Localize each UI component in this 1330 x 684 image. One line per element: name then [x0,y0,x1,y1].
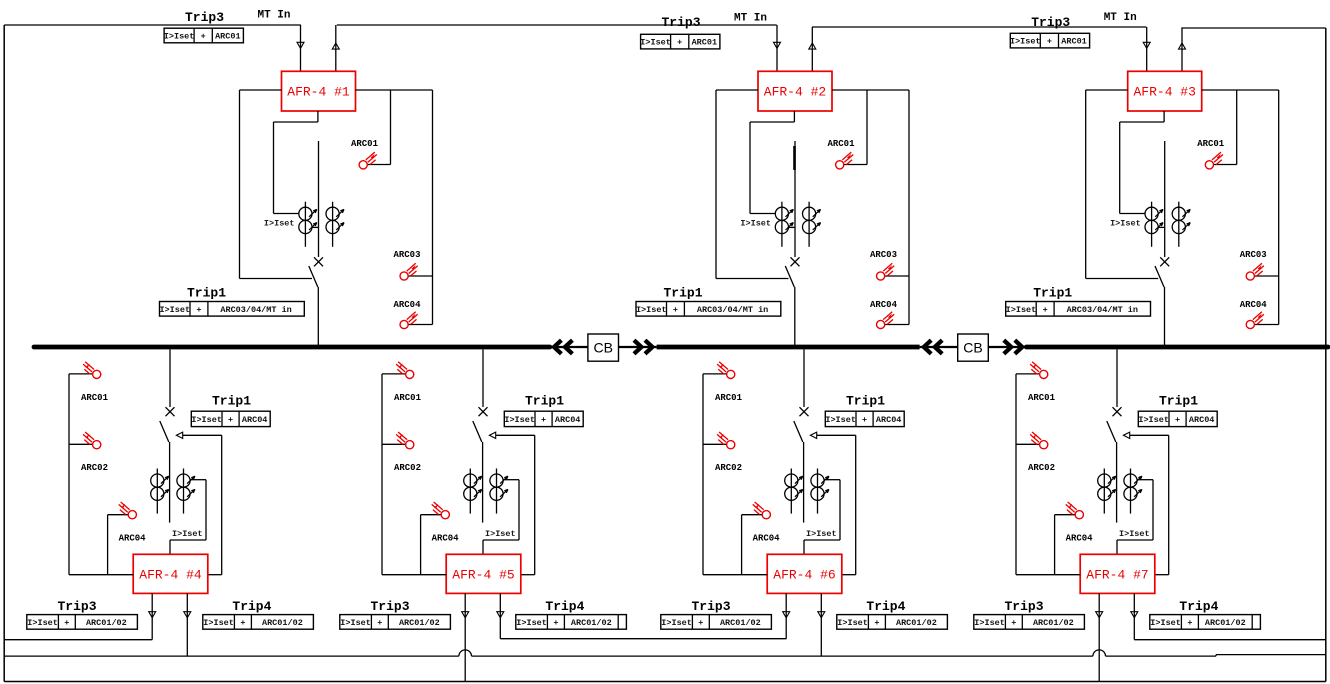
svg-text:ARC01: ARC01 [1028,393,1056,403]
label box Trip3 block 5 [340,615,451,630]
sensor ARC02 block 6 [717,432,735,449]
svg-text:ARC04: ARC04 [1066,534,1094,544]
sensor ARC01 block 1 [359,152,377,169]
label Trip3 block 7 [1004,599,1043,614]
switch cross block 7 [1113,407,1122,416]
svg-text:ARC04: ARC04 [1240,300,1268,310]
label box Trip1 block 6 [825,411,904,426]
CT pair right block 6 [811,469,829,514]
wire left loop block 3 [1086,90,1159,279]
svg-text:+: + [541,415,546,425]
label box Trip3 block 6 [661,615,772,630]
svg-text:ARC03/04/MT in: ARC03/04/MT in [220,305,291,315]
wire ARC01 stub block 4 [69,373,93,375]
switch cross block 2 [791,257,800,266]
wire ARC04 stub block 4 [108,515,129,575]
arrow up from AFR-4 #3 [1179,43,1186,49]
label ARC04 block 4 [119,534,147,544]
wire left loop block 2 [716,90,789,279]
relay AFR-4 #5 [446,554,521,593]
sensor ARC02 block 4 [83,432,101,449]
label ARC04 block 3 [1240,300,1268,310]
svg-text:+: + [196,305,201,315]
wire net B (trip4 outputs bus) [4,650,1326,656]
svg-text:I>Iset: I>Iset [504,415,535,425]
wire CT loop block 4 [170,480,206,555]
wire trip output left block 4 [151,593,153,639]
wire CT to feeder tick block 2 [788,226,795,228]
wire feeder to busbar block 3 [1164,287,1166,345]
label ARC01 block 6 [715,393,743,403]
CT pair right block 1 [326,202,344,247]
switch blade block 5 [473,421,482,442]
svg-text:ARC01/02: ARC01/02 [1033,618,1074,628]
arrow output left block 7 [1096,612,1103,618]
label Trip3 block 6 [691,599,730,614]
label Trip4 block 5 [545,599,584,614]
wire ARC03 stub block 3 [1254,275,1279,277]
wire left sensor loop block 5 [382,374,446,575]
label Trip1 block 7 [1159,393,1198,408]
switch blade block 3 [1155,266,1164,287]
label box Trip3 block 1 [164,28,244,43]
svg-text:I>Iset: I>Iset [164,32,195,42]
wire trip output right block 7 [1133,593,1135,639]
wire trip return block 6 [817,435,856,574]
svg-text:ARC03/04/MT in: ARC03/04/MT in [1067,305,1138,315]
svg-text:Trip3: Trip3 [185,10,224,25]
svg-text:ARC03/04/MT in: ARC03/04/MT in [697,305,768,315]
svg-text:Trip4: Trip4 [1179,599,1218,614]
wire left sensor loop block 4 [69,374,133,575]
label ARC01 block 2 [827,139,855,149]
switch cross block 6 [800,407,809,416]
wire net D (trip4 #7 to right frame) [1134,639,1326,641]
arrow output left block 6 [783,612,790,618]
sensor ARC04 block 2 [877,312,895,329]
sensor ARC01 block 5 [396,362,414,379]
label I>Iset block 5 [485,529,516,539]
svg-text:MT In: MT In [1104,12,1137,24]
wire feeder mid block 4 [169,442,171,523]
wire left sensor loop block 7 [1016,374,1080,575]
wire trip output left block 5 [464,593,466,681]
arrow trip at switch block 5 [489,432,495,438]
sensor ARC03 block 1 [400,263,418,280]
busbar section C [1026,345,1328,350]
svg-text:ARC02: ARC02 [1028,463,1055,473]
CT pair left block 3 [1145,202,1163,247]
wire net C (trip4 #5 to trip3 #6) [500,638,786,640]
wire feeder from busbar block 6 [803,350,805,408]
switch cross block 5 [479,407,488,416]
svg-text:ARC01: ARC01 [81,393,109,403]
svg-text:Trip3: Trip3 [370,599,409,614]
wire right loop block 1 [356,90,433,325]
wire ARC04 stub block 3 [1254,324,1279,326]
svg-text:ARC01: ARC01 [692,38,718,48]
sensor ARC04 block 3 [1246,312,1264,329]
svg-text:AFR-4 #4: AFR-4 #4 [139,568,202,583]
wire feeder upper block 1 [318,141,320,257]
wire CT loop block 5 [483,480,519,555]
relay AFR-4 #2 [758,71,832,111]
svg-text:+: + [201,32,206,42]
sensor ARC03 block 2 [877,263,895,280]
svg-text:+: + [1047,37,1052,47]
svg-text:+: + [228,415,233,425]
arrow output left block 4 [149,612,156,618]
drawing frame bottom border [4,681,1326,683]
switch blade block 6 [794,421,803,442]
svg-text:ARC02: ARC02 [715,463,742,473]
svg-text:AFR-4 #6: AFR-4 #6 [773,568,835,583]
CT pair left block 7 [1098,469,1116,514]
svg-text:I>Iset: I>Iset [1110,219,1141,229]
wire CT to feeder tick block 1 [312,226,319,228]
arrow output right block 7 [1131,612,1138,618]
svg-text:ARC03: ARC03 [1240,250,1267,260]
svg-text:Trip4: Trip4 [545,599,584,614]
label I>Iset block 4 [172,529,203,539]
wire ARC01 stub block 3 [1213,90,1236,165]
label ARC01 block 4 [81,393,109,403]
svg-text:ARC04: ARC04 [876,415,902,425]
arrow up from AFR-4 #2 [809,43,816,49]
svg-text:I>Iset: I>Iset [172,529,203,539]
svg-text:Trip1: Trip1 [525,393,564,408]
label Trip4 block 4 [232,599,271,614]
svg-text:Trip3: Trip3 [1004,599,1043,614]
svg-text:+: + [1187,618,1192,628]
wire trip output right block 6 [820,593,822,656]
svg-text:I>Iset: I>Iset [191,415,222,425]
sensor ARC04 block 5 [432,502,450,519]
label box Trip4 block 5 [516,615,627,630]
svg-text:ARC01/02: ARC01/02 [571,618,612,628]
label box Trip1 block 2 [636,302,781,317]
svg-text:CB: CB [963,339,982,355]
svg-text:I>Iset: I>Iset [636,305,667,315]
wire trip return block 7 [1130,435,1169,574]
relay AFR-4 #4 [133,554,208,593]
wire feeder from busbar block 5 [482,350,484,408]
CT pair right block 4 [177,469,195,514]
label box Trip1 block 4 [191,411,270,426]
sensor ARC02 block 5 [396,432,414,449]
wire MT-in down-feed block 3 [1146,27,1148,71]
arrow trip at switch block 7 [1123,432,1129,438]
sensor ARC01 block 6 [717,362,735,379]
label Trip1 block 3 [1033,286,1072,301]
wire ARC04 stub block 2 [884,324,909,326]
arrow down into AFR-4 #3 [1143,42,1150,48]
wire left loop block 1 [240,90,313,279]
wire trip return block 5 [496,435,535,574]
svg-text:ARC01/02: ARC01/02 [720,618,761,628]
drawing frame left border [3,25,5,682]
wire feeder from busbar block 4 [169,350,171,408]
svg-text:I>Iset: I>Iset [159,305,190,315]
wire ARC03 stub block 1 [408,275,433,277]
arrow up from AFR-4 #1 [332,43,339,49]
label Trip3 block 3 [1031,15,1070,30]
svg-text:ARC01/02: ARC01/02 [1205,618,1246,628]
label box Trip4 block 7 [1150,615,1261,630]
sensor ARC01 block 7 [1030,362,1048,379]
label Trip4 block 7 [1179,599,1218,614]
svg-text:MT In: MT In [257,10,290,22]
sensor ARC04 block 7 [1066,502,1084,519]
wire MT-in down-feed block 2 [776,25,778,71]
svg-text:+: + [240,618,245,628]
svg-text:ARC01: ARC01 [1061,37,1087,47]
wire feeder overlap block 2 [793,146,796,170]
wire ARC01 stub block 1 [367,90,390,165]
svg-text:+: + [1011,618,1016,628]
svg-text:ARC01: ARC01 [394,393,422,403]
switch blade block 1 [309,266,318,287]
wire feeder mid block 6 [803,442,805,523]
wire right loop block 2 [832,90,909,325]
label I>Iset block 6 [806,529,837,539]
relay AFR-4 #1 [282,71,356,111]
svg-text:I>Iset: I>Iset [1010,37,1041,47]
wire ARC02 stub block 4 [69,443,93,445]
svg-text:ARC01/02: ARC01/02 [262,618,303,628]
CT pair right block 7 [1124,469,1142,514]
switch blade block 4 [160,421,169,442]
drawing frame right border [1325,28,1327,682]
label Trip3 block 5 [370,599,409,614]
wire ARC04 stub block 1 [408,324,433,326]
svg-text:ARC01/02: ARC01/02 [896,618,937,628]
label box Trip1 block 1 [159,302,304,317]
wire trip output left block 6 [785,593,787,638]
svg-text:AFR-4 #1: AFR-4 #1 [287,85,350,100]
label MT In block 1 [257,10,290,22]
sensor ARC04 block 6 [753,502,771,519]
label Trip3 block 4 [57,599,96,614]
wire ARC04 stub block 5 [421,515,442,575]
svg-text:AFR-4 #3: AFR-4 #3 [1133,85,1195,100]
svg-text:I>Iset: I>Iset [516,618,547,628]
label box Trip1 block 7 [1138,411,1217,426]
label ARC04 block 6 [753,534,781,544]
wire top bus segment 3 [812,26,1146,28]
label ARC03 block 3 [1240,250,1267,260]
label Trip3 block 1 [185,10,224,25]
svg-text:I>Iset: I>Iset [661,618,692,628]
wire CT loop block 3 [1120,111,1164,214]
label ARC04 block 5 [432,534,460,544]
svg-text:Trip3: Trip3 [691,599,730,614]
wire MT-in down-feed block 1 [300,25,302,71]
svg-text:I>Iset: I>Iset [825,415,856,425]
arrow down into AFR-4 #1 [297,42,304,48]
wire feeder upper block 2 [794,141,796,257]
svg-text:I>Iset: I>Iset [974,618,1005,628]
wire feeder from busbar block 7 [1116,350,1118,408]
label ARC03 block 1 [393,250,420,260]
switch cross block 3 [1160,257,1169,266]
wire trip output right block 5 [499,593,501,638]
svg-text:Trip1: Trip1 [187,286,226,301]
label box Trip3 block 7 [974,615,1085,630]
label box Trip4 block 6 [837,615,948,630]
wire CT loop block 7 [1117,480,1153,555]
label ARC03 block 2 [870,250,897,260]
wire ARC04 stub block 6 [742,515,763,575]
label ARC02 block 6 [715,463,742,473]
wire CT loop block 1 [274,111,318,214]
sensor ARC04 block 1 [400,312,418,329]
label MT In block 2 [734,13,767,25]
svg-text:I>Iset: I>Iset [340,618,371,628]
wire ARC01 stub block 7 [1016,373,1040,375]
svg-text:+: + [698,618,703,628]
label Trip1 block 6 [846,393,885,408]
label box Trip3 block 4 [27,615,138,630]
svg-text:Trip3: Trip3 [57,599,96,614]
svg-text:ARC04: ARC04 [119,534,147,544]
svg-text:ARC01: ARC01 [827,139,855,149]
sensor ARC01 block 4 [83,362,101,379]
CT pair left block 4 [151,469,169,514]
label Trip4 block 6 [866,599,905,614]
svg-text:ARC01: ARC01 [1197,139,1225,149]
label ARC04 block 7 [1066,534,1094,544]
wire trip return block 4 [183,435,222,574]
svg-text:Trip3: Trip3 [1031,15,1070,30]
arrow output right block 4 [184,612,191,618]
svg-text:ARC01/02: ARC01/02 [399,618,440,628]
svg-text:MT In: MT In [734,13,767,25]
sensor ARC01 block 2 [836,152,854,169]
label box Trip1 block 3 [1006,302,1151,317]
label Trip3 block 2 [661,15,700,30]
label box Trip1 block 5 [504,411,583,426]
svg-text:+: + [1175,415,1180,425]
busbar section B [657,345,920,350]
wire ARC04 stub block 7 [1055,515,1076,575]
CT pair right block 5 [490,469,508,514]
switch cross block 1 [314,257,323,266]
CT pair right block 2 [803,202,821,247]
svg-text:AFR-4 #5: AFR-4 #5 [452,568,514,583]
switch cross block 4 [166,407,175,416]
label I>Iset block 7 [1119,529,1150,539]
svg-text:I>Iset: I>Iset [203,618,234,628]
label ARC02 block 5 [394,463,421,473]
wire ARC03 stub block 2 [884,275,909,277]
label Trip1 block 2 [663,286,702,301]
arrow down into AFR-4 #2 [774,42,781,48]
wire top bus segment 2 [337,24,777,26]
svg-text:ARC02: ARC02 [394,463,421,473]
label ARC02 block 4 [81,463,108,473]
svg-text:I>Iset: I>Iset [485,529,516,539]
svg-text:Trip4: Trip4 [232,599,271,614]
label ARC02 block 7 [1028,463,1055,473]
svg-text:I>Iset: I>Iset [1150,618,1181,628]
wire MT-out up-feed block 1 [335,25,337,71]
wire CT loop block 2 [750,111,794,214]
CT pair left block 6 [785,469,803,514]
svg-text:+: + [1043,305,1048,315]
svg-text:+: + [64,618,69,628]
label ARC01 block 3 [1197,139,1225,149]
CT pair left block 1 [299,202,317,247]
wire feeder mid block 7 [1116,442,1118,523]
arrow output right block 6 [818,612,825,618]
wire ARC01 stub block 5 [382,373,406,375]
bus coupler breaker CB1 [550,334,657,361]
wire ARC02 stub block 7 [1016,443,1040,445]
wire trip output left block 7 [1098,593,1100,681]
svg-text:ARC01: ARC01 [351,139,379,149]
svg-text:I>Iset: I>Iset [1119,529,1150,539]
svg-text:ARC04: ARC04 [242,415,268,425]
svg-text:Trip1: Trip1 [663,286,702,301]
label ARC04 block 2 [870,300,898,310]
svg-text:ARC01: ARC01 [715,393,743,403]
svg-text:ARC01/02: ARC01/02 [86,618,127,628]
label Trip1 block 1 [187,286,226,301]
busbar section A [34,345,550,350]
wire right loop block 3 [1202,90,1279,325]
wire top bus segment 4 [1181,27,1326,29]
wire ARC01 stub block 6 [703,373,727,375]
relay AFR-4 #3 [1128,71,1202,111]
wire ARC01 stub block 2 [844,90,867,165]
arrow trip at switch block 4 [176,432,182,438]
arrow output right block 5 [497,612,504,618]
svg-text:+: + [862,415,867,425]
svg-text:I>Iset: I>Iset [1138,415,1169,425]
svg-text:I>Iset: I>Iset [640,38,671,48]
label Trip1 block 5 [525,393,564,408]
label MT In block 3 [1104,12,1137,24]
CT pair left block 5 [464,469,482,514]
svg-text:AFR-4 #7: AFR-4 #7 [1086,568,1148,583]
relay AFR-4 #7 [1080,554,1155,593]
wire feeder mid block 5 [482,442,484,523]
wire MT-out up-feed block 2 [811,27,813,71]
svg-text:ARC04: ARC04 [870,300,898,310]
svg-text:CB: CB [593,339,612,355]
svg-text:Trip4: Trip4 [866,599,905,614]
sensor ARC04 block 4 [119,502,137,519]
svg-text:I>Iset: I>Iset [264,219,295,229]
bus coupler breaker CB2 [920,334,1027,361]
label box Trip4 block 4 [203,615,314,630]
svg-text:ARC01: ARC01 [215,32,241,42]
sensor ARC02 block 7 [1030,432,1048,449]
wire net A (trip3 #4 to left frame) [4,639,152,641]
switch blade block 7 [1107,421,1116,442]
svg-text:Trip3: Trip3 [661,15,700,30]
wire feeder to busbar block 2 [794,287,796,345]
label ARC01 block 1 [351,139,379,149]
svg-text:+: + [673,305,678,315]
switch blade block 2 [785,266,794,287]
svg-text:ARC04: ARC04 [1189,415,1215,425]
svg-text:+: + [377,618,382,628]
wire left sensor loop block 6 [703,374,767,575]
wire top bus segment 1 [4,24,301,26]
svg-text:ARC02: ARC02 [81,463,108,473]
